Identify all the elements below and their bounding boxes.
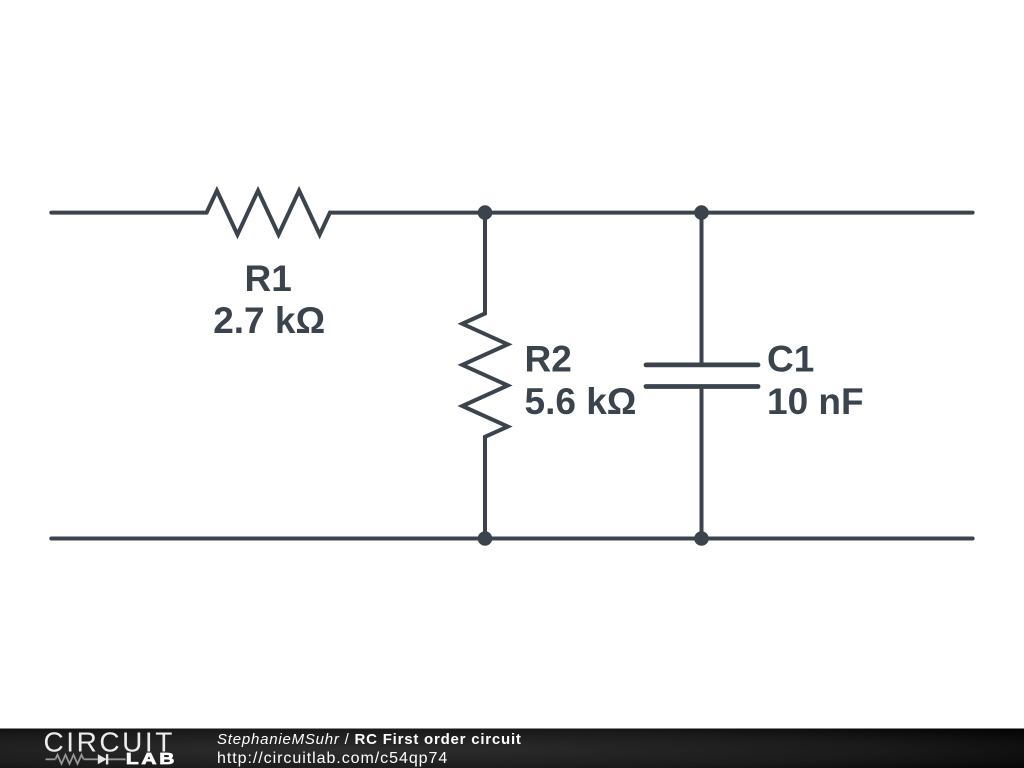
logo doodle resistor zigzag [55,755,83,764]
logo doodle diode triangle [98,754,107,764]
node junction bottom-right [694,531,709,546]
svg-text:R2: R2 [525,339,572,380]
svg-text:StephanieMSuhr / RC First orde: StephanieMSuhr / RC First order circuit [217,731,522,748]
wire C1 bottom lead [700,387,704,539]
logo doodle wire middle [84,758,98,760]
svg-text:10 nF: 10 nF [767,381,864,422]
wire bottom [51,537,972,541]
resistor R2 [462,314,508,437]
capacitor C1 [646,365,758,387]
svg-text:C1: C1 [767,339,814,380]
node junction top-left [478,205,493,220]
node junction bottom-left [478,531,493,546]
svg-text:2.7 kΩ: 2.7 kΩ [213,300,325,341]
logo doodle diode cathode bar [106,754,108,764]
node junction top-right [694,205,709,220]
wire top-left [51,211,206,215]
svg-text:LAB: LAB [126,750,177,768]
svg-text:R1: R1 [245,258,292,299]
logo doodle wire left [46,755,126,764]
wire R2 bottom lead [483,437,487,539]
wire R2 top lead [483,213,487,314]
wire top-right [330,211,973,215]
footer bar [0,729,1024,768]
logo doodle wire right [107,758,126,760]
svg-text:http://circuitlab.com/c54qp74: http://circuitlab.com/c54qp74 [217,750,448,767]
resistor R1 [207,191,330,235]
wire C1 top lead [700,213,704,365]
svg-text:5.6 kΩ: 5.6 kΩ [525,381,637,422]
